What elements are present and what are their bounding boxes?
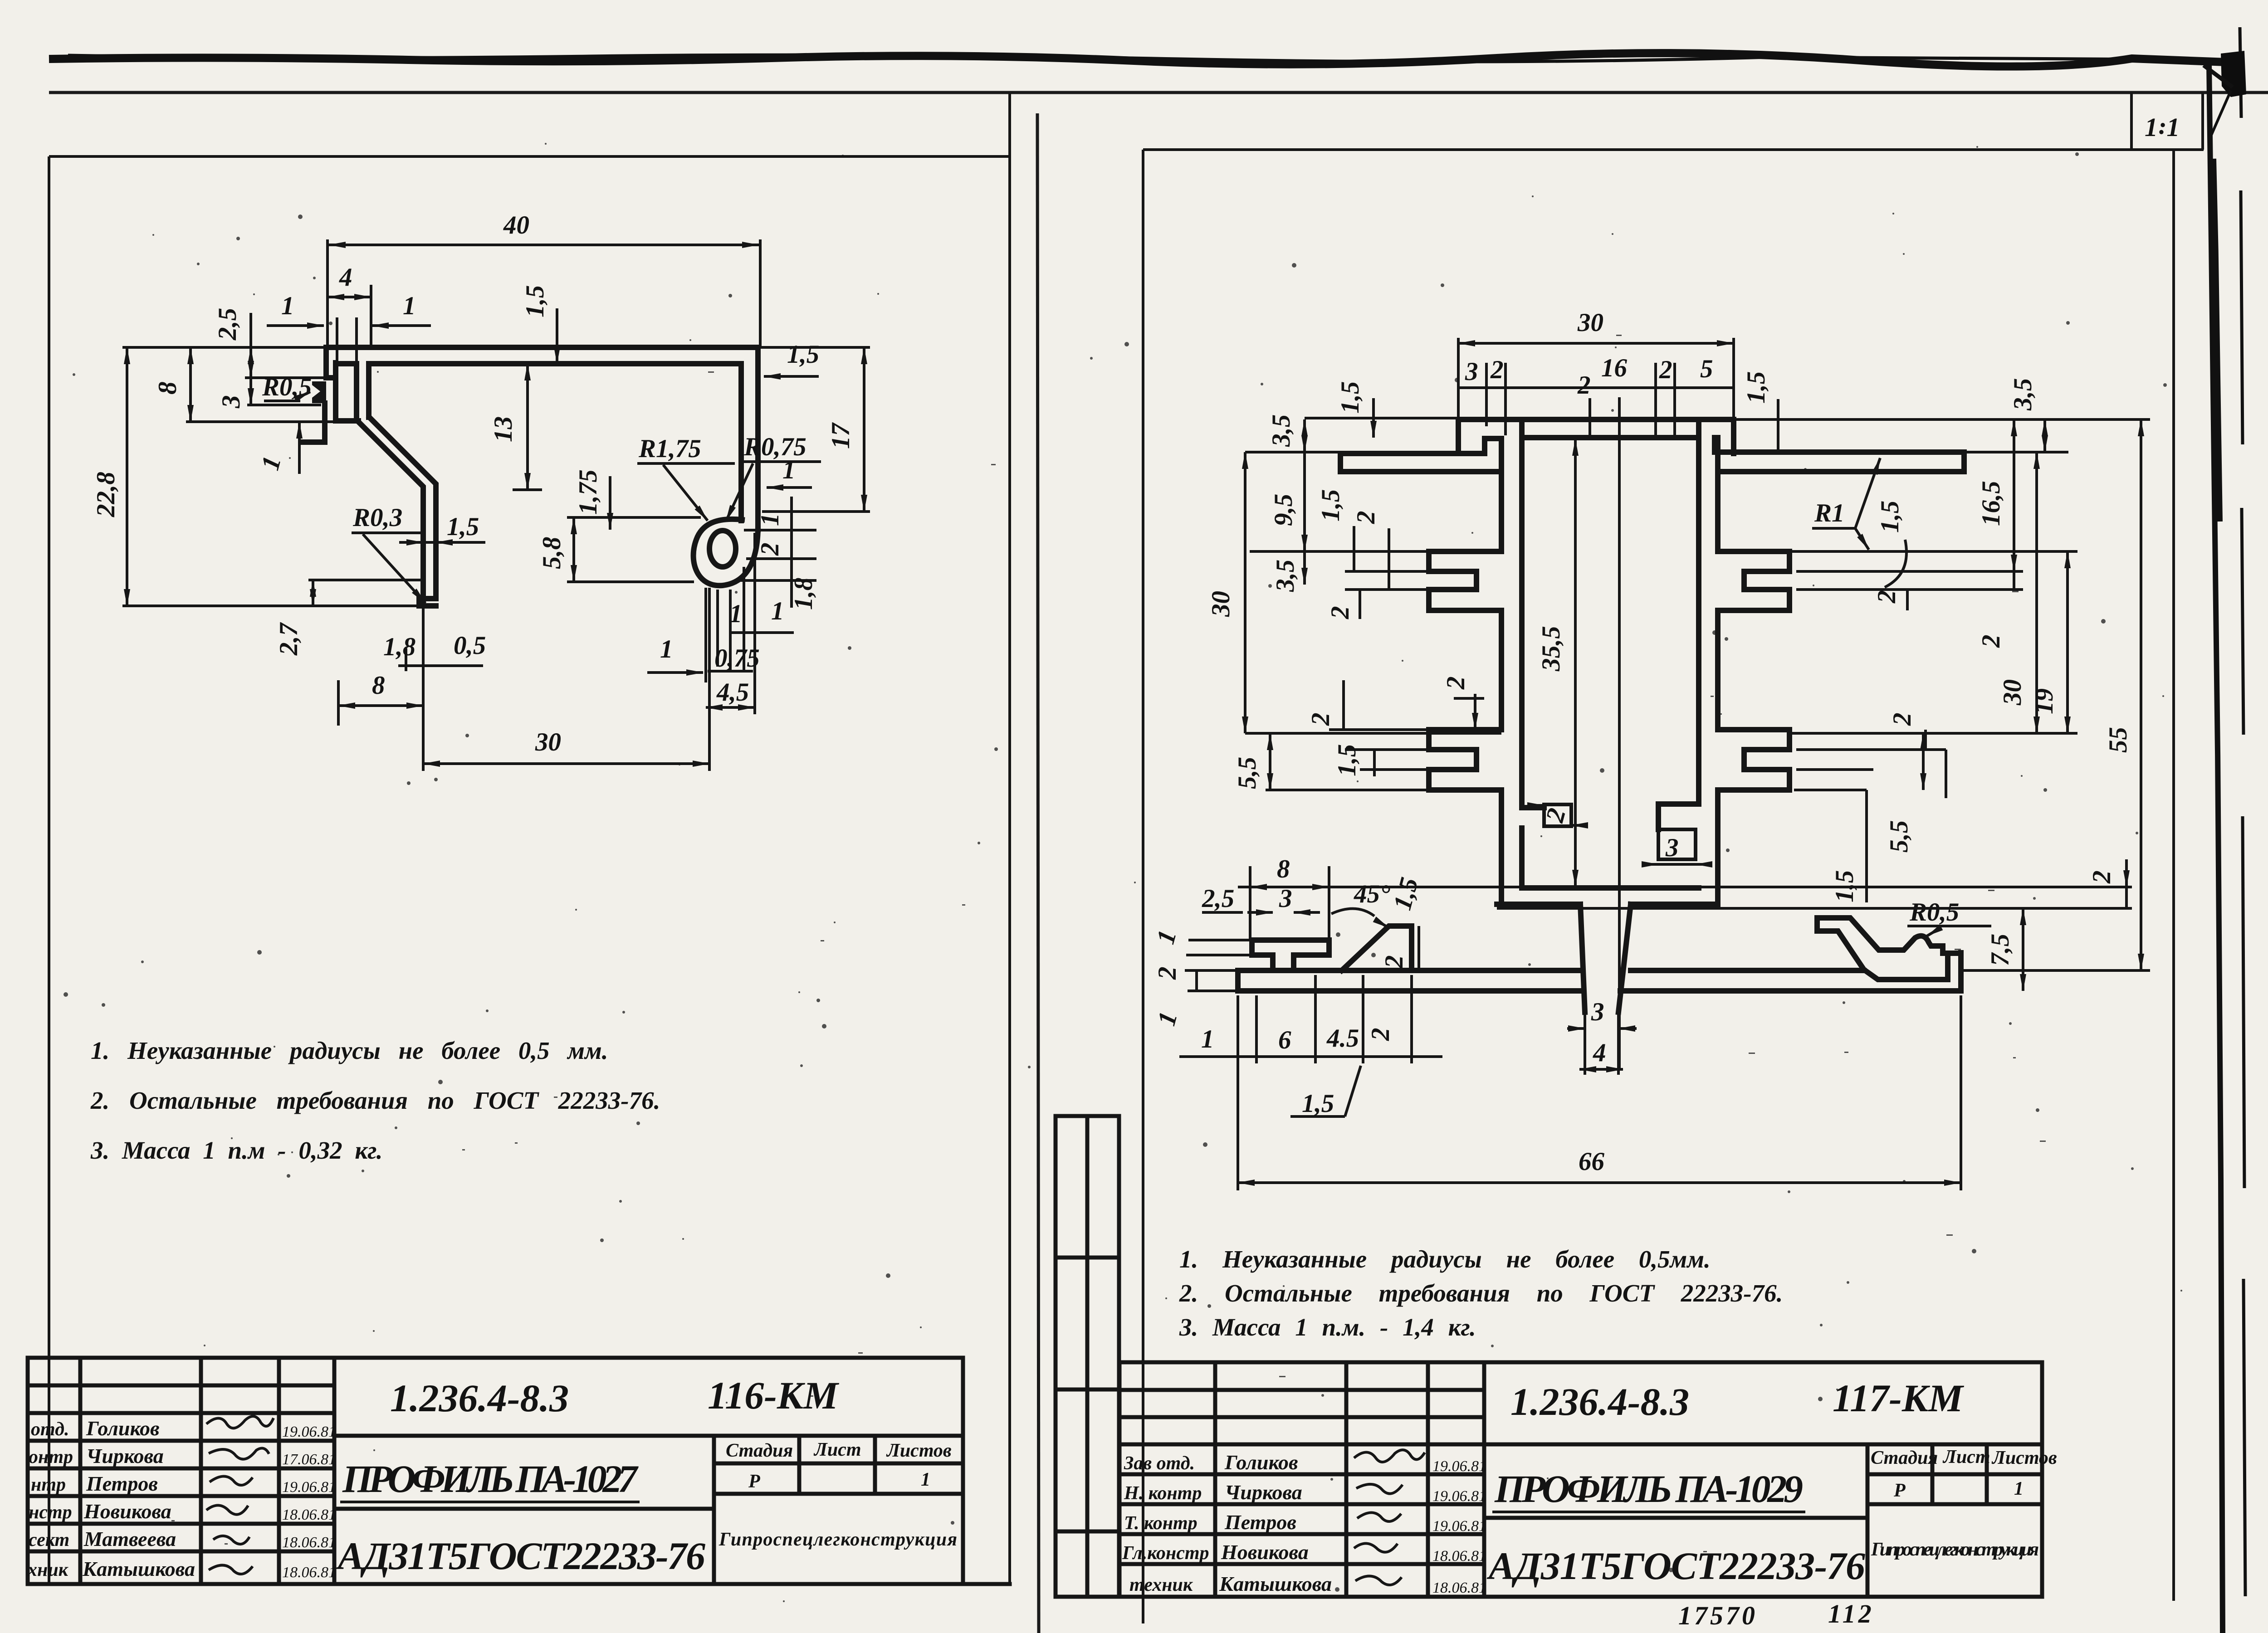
svg-text:Катышкова: Катышкова <box>82 1557 195 1580</box>
base right hook block <box>1817 918 1960 980</box>
svg-text:18.06.81: 18.06.81 <box>282 1564 336 1581</box>
svg-text:1,5: 1,5 <box>787 340 819 369</box>
svg-text:22,8: 22,8 <box>92 472 120 517</box>
right title block <box>1119 1362 2042 1597</box>
dim 2.7 <box>274 580 424 656</box>
svg-text:1,5: 1,5 <box>1302 1089 1334 1118</box>
svg-text:17: 17 <box>826 422 855 449</box>
svg-text:Чиркова: Чиркова <box>1225 1481 1302 1504</box>
lower left flange <box>1429 730 1501 790</box>
svg-text:R0,3: R0,3 <box>352 503 402 532</box>
base wedge 45 <box>1342 926 1412 970</box>
svg-text:1: 1 <box>281 292 294 320</box>
svg-text:Лист: Лист <box>813 1439 861 1460</box>
label 1.5 curved <box>1876 501 1906 587</box>
label R0.5 right <box>1907 898 1991 936</box>
svg-text:116-КМ: 116-КМ <box>708 1374 839 1417</box>
svg-text:4: 4 <box>1593 1038 1606 1067</box>
scan right broken line <box>2240 27 2245 1596</box>
svg-text:30: 30 <box>1998 679 2027 706</box>
svg-text:2. Остальные требования по ГОС: 2. Остальные требования по ГОСТ 22233-76… <box>90 1087 660 1114</box>
svg-text:1: 1 <box>756 513 784 526</box>
svg-text:3,5: 3,5 <box>1267 414 1295 447</box>
neck bottom dims 3 4 <box>1567 998 1637 1075</box>
svg-text:4.5: 4.5 <box>1326 1024 1359 1053</box>
svg-text:Стадия: Стадия <box>726 1440 793 1461</box>
svg-text:13: 13 <box>489 416 518 442</box>
right side top dims <box>1734 371 2150 452</box>
svg-text:1. Неуказанные радиусы не боле: 1. Неуказанные радиусы не более 0,5мм. <box>1179 1245 1711 1273</box>
svg-text:хник: хник <box>27 1560 69 1580</box>
dim 30 top <box>1458 308 1734 417</box>
dim 30 bottom <box>423 588 709 771</box>
scan top edge band <box>49 53 2239 66</box>
svg-text:1.236.4-8.3: 1.236.4-8.3 <box>1510 1380 1689 1423</box>
svg-text:3. Масса 1 п.м. - 1,4 кг.: 3. Масса 1 п.м. - 1,4 кг. <box>1179 1313 1476 1341</box>
left title block texts <box>27 1374 957 1581</box>
left arm <box>1340 453 1497 472</box>
boxed 2 and 3 <box>1529 805 1712 864</box>
right title block texts <box>1122 1376 2057 1630</box>
svg-text:нтр: нтр <box>31 1474 66 1495</box>
svg-text:35,5: 35,5 <box>1537 626 1565 672</box>
svg-text:Лист: Лист <box>1942 1447 1990 1467</box>
svg-text:5,5: 5,5 <box>1885 820 1913 853</box>
svg-text:Петров: Петров <box>1224 1511 1296 1534</box>
profile left screw-port cluster <box>301 347 369 442</box>
svg-text:ПРОФИЛЬ ПА-1029: ПРОФИЛЬ ПА-1029 <box>1494 1467 1803 1511</box>
profile top wall <box>326 347 758 364</box>
dim 1 1 top <box>267 292 431 326</box>
top sub dims 3 2 16 2 5 <box>1458 354 1734 435</box>
svg-text:3: 3 <box>1665 834 1679 862</box>
svg-text:Катышкова: Катышкова <box>1219 1572 1332 1595</box>
svg-text:1: 1 <box>660 635 673 663</box>
svg-text:8: 8 <box>1277 855 1290 883</box>
svg-text:5,8: 5,8 <box>538 537 566 569</box>
dim 35.5 <box>1537 439 1575 887</box>
svg-text:R1: R1 <box>1814 499 1845 527</box>
dim 7.5 <box>1497 908 2132 991</box>
left signatures <box>206 1416 274 1574</box>
svg-text:1꞉1: 1꞉1 <box>2145 112 2180 142</box>
svg-text:Р: Р <box>1893 1480 1906 1501</box>
dim 17 <box>758 347 870 512</box>
sheet gap line <box>1037 113 1039 1633</box>
right flange small dims <box>1794 590 1946 902</box>
svg-text:2,5: 2,5 <box>1202 884 1234 913</box>
corner scale box <box>2130 93 2133 150</box>
svg-text:8: 8 <box>372 671 385 700</box>
svg-text:1: 1 <box>771 597 784 625</box>
svg-text:1,5: 1,5 <box>1333 744 1361 776</box>
svg-text:19.06.81: 19.06.81 <box>282 1479 336 1496</box>
profile diagonal + lower wall <box>357 418 436 606</box>
svg-text:1. Неуказанные радиусы не боле: 1. Неуказанные радиусы не более 0,5 мм. <box>91 1037 608 1064</box>
svg-text:6: 6 <box>1278 1026 1291 1054</box>
svg-text:3: 3 <box>1465 357 1478 386</box>
svg-text:4: 4 <box>339 263 352 292</box>
svg-text:Петров: Петров <box>86 1472 158 1495</box>
svg-text:5,5: 5,5 <box>1233 757 1261 789</box>
svg-text:18.06.81: 18.06.81 <box>282 1506 336 1523</box>
svg-text:30: 30 <box>1207 591 1235 617</box>
top wall <box>1458 419 1734 453</box>
svg-text:19.06.81: 19.06.81 <box>1432 1518 1486 1535</box>
svg-text:Чиркова: Чиркова <box>86 1444 164 1467</box>
scan second rule <box>49 91 2268 94</box>
trunk walls <box>1501 419 1718 904</box>
svg-text:66: 66 <box>1579 1147 1605 1176</box>
left title block <box>28 1358 963 1584</box>
svg-text:3. Масса 1 п.м - 0,32 кг.: 3. Масса 1 п.м - 0,32 кг. <box>90 1136 383 1164</box>
svg-text:Гипроспецлегконструкция: Гипроспецлегконструкция <box>719 1529 957 1550</box>
svg-text:нстр: нстр <box>29 1502 72 1523</box>
right vertical dim stack <box>1789 419 2150 970</box>
right narrow table <box>1056 1116 1119 1597</box>
svg-text:Матвеева: Матвеева <box>83 1527 176 1550</box>
svg-text:Листов: Листов <box>1991 1448 2057 1468</box>
svg-text:3,5: 3,5 <box>1271 560 1300 592</box>
svg-text:0,75: 0,75 <box>714 644 760 673</box>
dim 1.75 <box>574 469 610 530</box>
notes left sheet <box>90 1037 660 1164</box>
svg-text:АД31Т5ГОСТ22233-76: АД31Т5ГОСТ22233-76 <box>336 1534 705 1578</box>
base plate <box>1238 953 1961 991</box>
svg-text:19.06.81: 19.06.81 <box>1432 1488 1486 1505</box>
svg-text:1.236.4-8.3: 1.236.4-8.3 <box>390 1376 569 1420</box>
svg-text:4,5: 4,5 <box>716 678 749 707</box>
dim 1.5 top <box>521 285 557 364</box>
svg-text:2: 2 <box>1326 606 1354 620</box>
dim 2.5 and 3 <box>122 308 326 409</box>
svg-text:1: 1 <box>921 1469 930 1490</box>
label R0.5 <box>262 373 312 401</box>
svg-text:3: 3 <box>1279 884 1292 913</box>
dim 8 bottom <box>338 671 423 726</box>
svg-text:R0,75: R0,75 <box>743 433 807 461</box>
svg-text:Стадия: Стадия <box>1871 1448 1938 1468</box>
svg-text:2: 2 <box>1872 590 1901 604</box>
dim 5.8 <box>538 517 701 582</box>
svg-text:1: 1 <box>1201 1025 1214 1053</box>
svg-text:R0,5: R0,5 <box>1909 898 1959 926</box>
scan corner blob <box>2221 51 2246 97</box>
svg-text:9,5: 9,5 <box>1269 494 1298 526</box>
svg-text:Т. контр: Т. контр <box>1124 1513 1198 1534</box>
dim 4 <box>327 263 371 363</box>
svg-text:112: 112 <box>1828 1599 1874 1628</box>
svg-text:3: 3 <box>1591 998 1604 1026</box>
svg-text:2: 2 <box>756 543 784 556</box>
svg-text:1,8: 1,8 <box>383 633 415 661</box>
svg-text:Листов: Листов <box>886 1440 952 1461</box>
base bottom sub dims 1 6 4.5 2 <box>1179 975 1442 1118</box>
svg-text:30: 30 <box>1577 308 1603 337</box>
dim 13 <box>489 364 542 490</box>
dim 22.8 <box>92 347 423 606</box>
svg-text:17570: 17570 <box>1678 1601 1758 1630</box>
svg-text:16,5: 16,5 <box>1977 481 2005 526</box>
svg-text:1: 1 <box>782 456 796 484</box>
svg-text:2: 2 <box>1306 713 1335 726</box>
svg-text:2: 2 <box>1888 713 1916 726</box>
svg-text:АД31Т5ГОСТ22233-76: АД31Т5ГОСТ22233-76 <box>1486 1544 1865 1588</box>
svg-text:1,5: 1,5 <box>447 512 479 541</box>
svg-text:16: 16 <box>1601 354 1628 382</box>
label R1 <box>1812 458 1880 550</box>
scan right dark edge line <box>2209 63 2223 1633</box>
svg-text:17.06.81: 17.06.81 <box>282 1451 336 1468</box>
svg-text:18.06.81: 18.06.81 <box>1432 1548 1486 1565</box>
dim 66 <box>1238 995 1961 1190</box>
svg-text:1: 1 <box>2014 1478 2024 1499</box>
svg-text:Гипроспецлегконструкция: Гипроспецлегконструкция <box>1871 1539 2039 1560</box>
right sheet frame <box>1143 150 2204 1623</box>
svg-text:1: 1 <box>403 292 416 320</box>
svg-text:техник: техник <box>1129 1575 1193 1595</box>
svg-text:1,5: 1,5 <box>1316 489 1345 522</box>
svg-text:1,5: 1,5 <box>1742 371 1770 404</box>
svg-text:Новикова: Новикова <box>83 1500 171 1523</box>
svg-text:Зав отд.: Зав отд. <box>1124 1453 1195 1474</box>
svg-text:1,5: 1,5 <box>1876 501 1904 533</box>
hook side extension lines <box>736 456 818 610</box>
svg-text:Голиков: Голиков <box>86 1417 160 1440</box>
dim 1 rib <box>256 422 299 474</box>
svg-text:45°: 45° <box>1354 880 1390 908</box>
centerline trunk <box>1618 397 1621 1070</box>
svg-text:2,7: 2,7 <box>274 622 303 656</box>
lower left flange dims <box>1306 677 1484 777</box>
svg-text:2: 2 <box>1442 677 1470 690</box>
svg-text:55: 55 <box>2104 727 2132 753</box>
svg-text:Голиков: Голиков <box>1224 1451 1298 1474</box>
label R0.3 <box>352 503 425 603</box>
hook bottom dims <box>647 533 794 714</box>
svg-text:2: 2 <box>1659 356 1672 384</box>
svg-text:2,5: 2,5 <box>213 308 242 341</box>
svg-text:19.06.81: 19.06.81 <box>282 1423 336 1440</box>
dims 1.8 / 0.5 bottom <box>383 631 486 671</box>
svg-text:Гл.констр: Гл.констр <box>1122 1543 1209 1564</box>
svg-text:2: 2 <box>1352 511 1380 525</box>
svg-text:2: 2 <box>1977 635 2005 648</box>
svg-text:19.06.81: 19.06.81 <box>1432 1458 1486 1475</box>
svg-text:7,5: 7,5 <box>1986 934 2014 966</box>
upper left flange dims <box>1250 489 1429 619</box>
svg-text:1,8: 1,8 <box>789 578 818 610</box>
notes right sheet <box>1179 1245 1783 1341</box>
svg-text:117-КМ: 117-КМ <box>1833 1376 1964 1420</box>
profile right wall + hook <box>694 347 758 585</box>
trunk bottom junction <box>1497 804 1718 904</box>
svg-text:онтр: онтр <box>29 1447 73 1467</box>
upper left flange <box>1429 551 1501 610</box>
svg-text:30: 30 <box>535 728 561 756</box>
svg-text:2: 2 <box>1577 371 1591 400</box>
dim 1.5 top-left wall <box>1336 381 1374 438</box>
svg-text:сект: сект <box>29 1530 69 1550</box>
svg-text:2: 2 <box>1153 967 1182 980</box>
neck taper <box>1580 904 1631 1012</box>
svg-text:1: 1 <box>729 600 743 628</box>
svg-text:1,75: 1,75 <box>574 469 602 515</box>
right signatures <box>1354 1450 1425 1585</box>
svg-text:2: 2 <box>2087 871 2116 884</box>
svg-text:ПРОФИЛЬ ПА-1027: ПРОФИЛЬ ПА-1027 <box>342 1457 639 1501</box>
dim 1.5 lower wall <box>399 512 485 542</box>
lower right flange <box>1718 730 1789 790</box>
svg-text:40: 40 <box>503 211 529 239</box>
svg-text:2: 2 <box>1366 1028 1395 1042</box>
dim 1.5 right wall <box>764 340 819 376</box>
svg-text:Н. контр: Н. контр <box>1124 1483 1202 1504</box>
right arm <box>1718 452 1964 472</box>
left sheet frame <box>28 93 1010 1584</box>
svg-text:Р: Р <box>748 1471 760 1492</box>
dim 8 left <box>153 347 336 422</box>
svg-text:2: 2 <box>1380 955 1408 969</box>
svg-text:8: 8 <box>153 382 182 395</box>
svg-text:5: 5 <box>1700 355 1713 383</box>
svg-text:2. Остальные требования по ГОС: 2. Остальные требования по ГОСТ 22233-76… <box>1179 1279 1783 1307</box>
upper right flange <box>1718 551 1789 610</box>
svg-text:18.06.81: 18.06.81 <box>282 1534 336 1551</box>
svg-text:3,5: 3,5 <box>2009 378 2037 411</box>
svg-text:R0,5: R0,5 <box>262 373 312 401</box>
base bottom-left dims <box>1151 855 2132 1029</box>
svg-text:Новикова: Новикова <box>1221 1540 1309 1564</box>
dim 40 <box>327 211 760 349</box>
svg-text:R1,75: R1,75 <box>638 434 701 463</box>
base left T-rib <box>1252 940 1329 970</box>
dim 2 far right <box>2087 859 2126 908</box>
svg-text:1,5: 1,5 <box>521 285 549 317</box>
svg-text:18.06.81: 18.06.81 <box>1432 1579 1486 1596</box>
left side dims <box>1207 414 1501 790</box>
svg-text:3: 3 <box>217 395 245 409</box>
svg-text:2: 2 <box>1490 356 1504 384</box>
svg-text:0,5: 0,5 <box>454 631 486 660</box>
svg-text:19: 19 <box>2030 688 2058 714</box>
dim 2 center leader <box>1577 371 1591 439</box>
svg-text:отд.: отд. <box>31 1419 69 1440</box>
svg-text:1,5: 1,5 <box>1336 381 1364 414</box>
labels R1.75 R0.75 <box>637 433 821 522</box>
